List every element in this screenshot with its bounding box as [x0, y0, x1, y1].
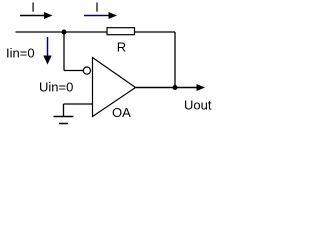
svg-text:R: R	[117, 40, 126, 55]
svg-text:Uin=0: Uin=0	[39, 80, 73, 95]
svg-text:Uout: Uout	[184, 98, 212, 113]
svg-text:Iin=0: Iin=0	[6, 46, 35, 61]
svg-text:OA: OA	[112, 105, 131, 120]
